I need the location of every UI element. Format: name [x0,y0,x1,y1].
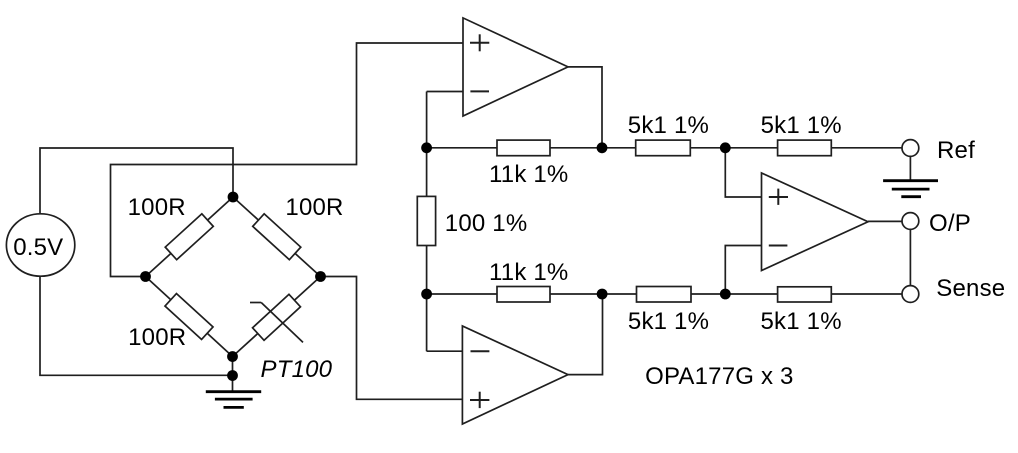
svg-text:PT100: PT100 [261,356,333,383]
wire bridge edge bottom-right [233,277,321,357]
svg-text:Ref: Ref [937,137,975,164]
svg-text:100R: 100R [128,324,186,351]
resistor 100R bottom-left [165,294,213,340]
svg-text:OPA177G x 3: OPA177G x 3 [645,363,794,390]
resistor 11k 1% top [497,140,550,156]
resistor 5k1 1% bottom-right [778,287,832,302]
wire U3 output [868,220,902,222]
voltage source V1 [6,214,74,276]
resistor 100R top-left [165,214,213,260]
terminal Sense [902,286,919,303]
wire U3 plus input [725,148,761,197]
resistor 100R top-right [253,214,301,260]
wire source bottom to ground node [40,277,233,375]
node right [315,271,326,282]
svg-text:O/P: O/P [929,210,971,237]
wire U1 inverting input [427,91,463,93]
svg-text:11k 1%: 11k 1% [489,259,568,286]
svg-text:100R: 100R [285,194,343,221]
svg-text:5k1 1%: 5k1 1% [761,112,842,139]
op-amp U2 [462,326,568,424]
resistor 5k1 1% top-right [778,140,832,156]
node feedback top-left [421,142,432,153]
node ground junction [227,370,238,381]
svg-text:5k1 1%: 5k1 1% [628,308,709,335]
wire inverting bus vertical [426,92,428,352]
wire U1 output [568,67,602,148]
wire right node to U2 plus input [321,277,463,400]
node feedback bottom-right [720,289,731,300]
node feedback top-mid [597,142,608,153]
resistor 5k1 1% bottom-left [637,287,692,303]
ground bridge [206,392,261,408]
op-amp U3 [762,173,869,271]
svg-text:Sense: Sense [936,275,1005,302]
wire U2 inverting input [427,350,463,352]
wire bridge edge bottom-left [146,277,233,357]
svg-text:100 1%: 100 1% [445,210,528,237]
wire U2 output [568,294,603,375]
svg-text:5k1 1%: 5k1 1% [761,308,842,335]
op-amp U1 [463,18,568,116]
wire bottom node to ground [232,357,234,392]
resistor PT100 [250,294,303,342]
node top [228,192,239,203]
node feedback top-right [720,142,731,153]
svg-text:5k1 1%: 5k1 1% [628,112,709,139]
node feedback bottom-mid [597,289,608,300]
resistor 11k 1% bottom [497,287,550,303]
wire bridge edge top-right [233,197,321,277]
svg-text:100R: 100R [128,194,186,221]
svg-text:11k 1%: 11k 1% [489,161,568,188]
ground Ref [883,181,938,197]
wire feedback row bottom [427,293,902,295]
svg-text:0.5V: 0.5V [13,234,63,261]
resistor 100 1% [417,196,435,245]
wire source top to bridge top [40,148,233,213]
resistor 5k1 1% top-left [636,140,691,156]
node bottom [227,351,238,362]
wire bridge edge top-left [146,197,234,277]
node left [140,271,151,282]
wire left node to U1 plus input [111,43,464,277]
wire feedback row top [427,147,902,149]
terminal Ref [902,140,919,157]
wire O/P to Sense [909,230,911,286]
wire Ref to ground [909,156,911,180]
node feedback bottom-left [421,289,432,300]
terminal O/P [902,213,919,230]
wire U3 inverting input [725,246,761,295]
